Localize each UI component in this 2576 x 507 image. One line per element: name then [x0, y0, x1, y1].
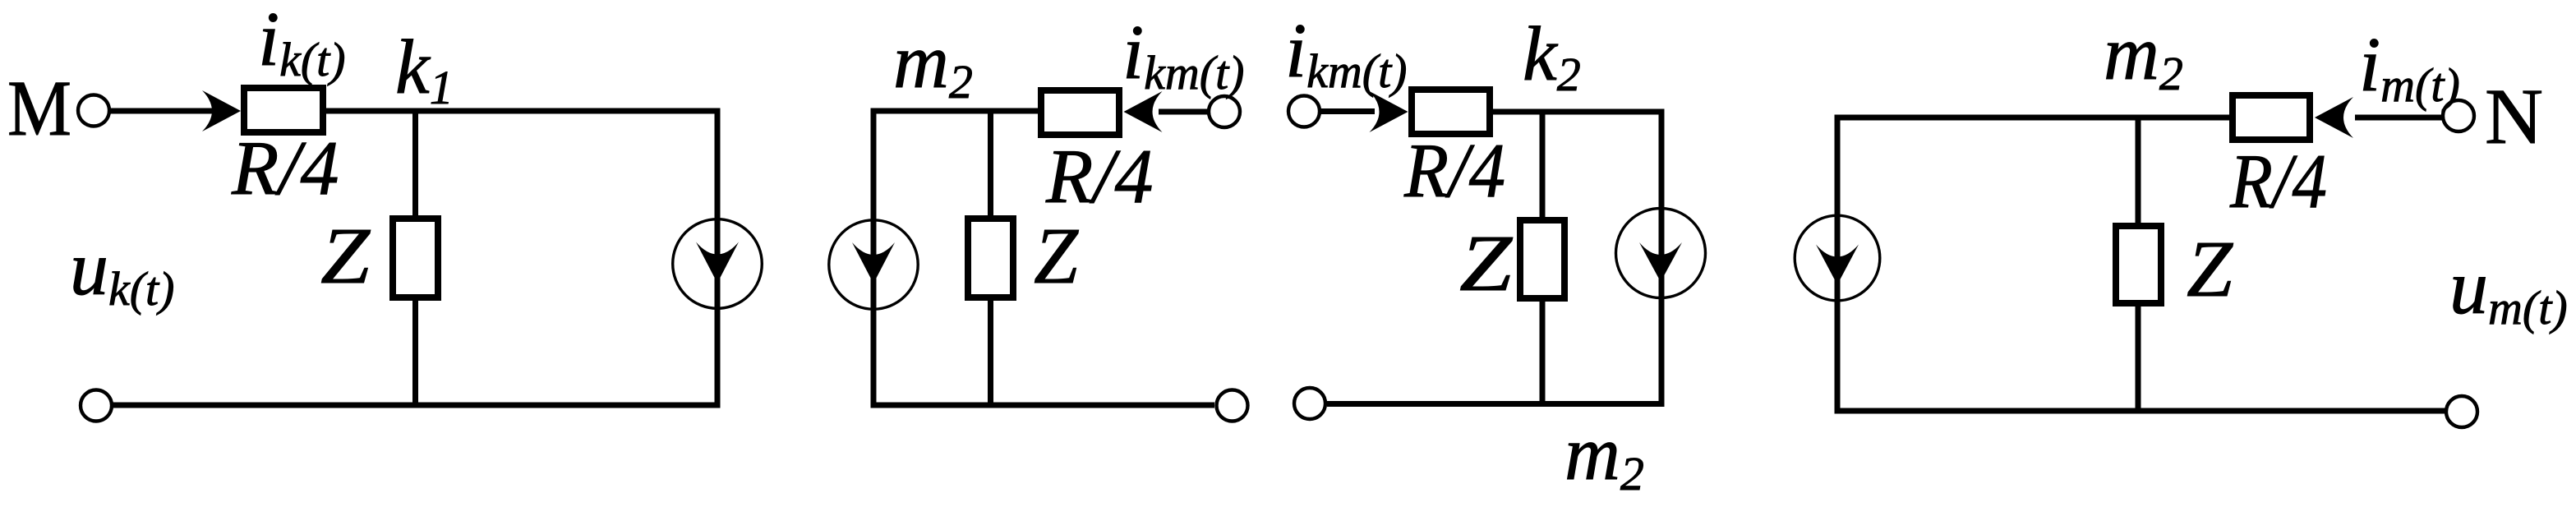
- svg-text:Z: Z: [1034, 212, 1079, 300]
- terminal bottom C3: [1294, 388, 1325, 419]
- wire C2 Z vertical upper: [988, 108, 993, 216]
- arrow i_m(t) C4: [2315, 97, 2353, 138]
- current source circle C3: [1616, 209, 1706, 298]
- resistor R/4 C4: [2233, 95, 2310, 140]
- current source circle C4: [1795, 215, 1880, 301]
- svg-text:R/4: R/4: [2229, 139, 2327, 224]
- wire C4 Z vertical lower: [2136, 307, 2141, 414]
- wire C4 Z vertical upper: [2136, 115, 2141, 224]
- wire C1 k1 vertical upper: [412, 108, 418, 216]
- wire C3 top/right/bottom loop: [1327, 112, 1661, 404]
- wire C1 top-left segment: [110, 108, 215, 114]
- wire C4 left loop: [1837, 118, 2445, 411]
- impedance Z C1: [393, 219, 438, 297]
- wire C2 arrow to terminal: [1159, 109, 1208, 115]
- wire C4 arrow to terminal: [2355, 115, 2442, 121]
- svg-text:M: M: [7, 64, 71, 152]
- svg-text:um(t): um(t): [2449, 245, 2568, 334]
- terminal N top C4: [2443, 100, 2474, 131]
- impedance Z C3: [1520, 220, 1564, 298]
- svg-text:ikm(t): ikm(t): [1122, 10, 1245, 99]
- resistor R/4 C2: [1041, 90, 1119, 135]
- svg-text:k2: k2: [1523, 12, 1581, 101]
- svg-text:R/4: R/4: [1403, 128, 1505, 214]
- current source circle C2: [829, 220, 918, 309]
- arrow i_k(t) C1: [202, 90, 241, 131]
- svg-text:R/4: R/4: [1045, 134, 1154, 219]
- terminal bottom C4: [2446, 396, 2477, 427]
- svg-text:ikm(t): ikm(t): [1285, 8, 1408, 98]
- terminal top C3: [1288, 96, 1320, 127]
- terminal top C2: [1209, 96, 1240, 127]
- svg-text:im(t): im(t): [2359, 22, 2460, 112]
- current source arrow C2: [852, 242, 895, 283]
- wire C2 left loop: [873, 111, 1214, 405]
- svg-text:R/4: R/4: [231, 126, 339, 211]
- svg-text:m2: m2: [893, 19, 973, 108]
- wire C2 Z vertical lower: [988, 301, 993, 408]
- current source circle C1: [673, 219, 763, 309]
- wire C1 top/right/bottom loop: [113, 111, 717, 405]
- current source arrow C1: [696, 242, 739, 283]
- resistor R/4 C1: [244, 88, 323, 132]
- svg-text:uk(t): uk(t): [70, 226, 175, 316]
- arrow i_km(t) C2: [1124, 91, 1163, 132]
- wire C1 k1 vertical lower: [412, 301, 418, 408]
- svg-text:Z: Z: [2187, 225, 2233, 313]
- impedance Z C2: [968, 219, 1013, 297]
- current source arrow C3: [1639, 242, 1682, 282]
- svg-text:m2: m2: [1564, 411, 1644, 500]
- wire C3 Z vertical lower: [1540, 302, 1546, 407]
- svg-text:N: N: [2485, 72, 2543, 160]
- svg-text:ik(t): ik(t): [258, 0, 346, 86]
- svg-text:k1: k1: [395, 25, 454, 114]
- terminal bottom C2: [1217, 390, 1248, 422]
- svg-text:Z: Z: [1459, 219, 1513, 307]
- arrow i_km(t) C3: [1370, 91, 1408, 132]
- resistor R/4 C3: [1412, 90, 1490, 134]
- svg-text:m2: m2: [2104, 11, 2183, 100]
- current source arrow C4: [1816, 245, 1859, 285]
- wire C3 Z vertical upper: [1540, 109, 1546, 218]
- impedance Z C4: [2116, 226, 2161, 303]
- terminal bottom C1: [81, 390, 112, 422]
- wire C3 terminal to arrow: [1321, 108, 1376, 114]
- svg-text:Z: Z: [320, 212, 371, 300]
- terminal M top C1: [78, 95, 109, 127]
